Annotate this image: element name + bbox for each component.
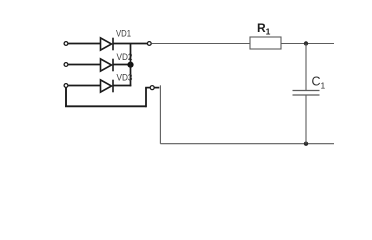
wire: VD2 cathode to bus: [113, 64, 131, 66]
wire: terminal 2 to VD2 anode: [68, 64, 100, 66]
input terminal 1: [64, 42, 68, 46]
wire: output terminal stub right: [154, 87, 159, 89]
wire: cathode bus vertical: [130, 44, 132, 87]
wire: resistor R1 to right end of top rail: [281, 43, 334, 45]
wire: VD3 cathode to bus: [113, 85, 131, 87]
svg-text:VD1: VD1: [116, 27, 131, 38]
wire: riser to output terminal: [145, 87, 150, 89]
capacitor C1: [293, 91, 320, 96]
wire: bottom-left horizontal run: [65, 105, 147, 107]
resistor R1: [250, 37, 281, 49]
wire: terminal 3 to VD3 anode: [68, 85, 100, 87]
wire: capacitor branch lower: [305, 95, 307, 144]
wire: terminal 1 to VD1 anode: [68, 43, 100, 45]
wire: terminal 3 down leg: [65, 88, 67, 107]
wire: bottom rail: [160, 143, 334, 145]
junction dot: top rail / capacitor branch: [304, 41, 308, 45]
input terminal 2: [64, 63, 68, 67]
diode VD1: [101, 38, 114, 51]
wire: capacitor branch upper: [305, 44, 307, 91]
wire: VD1 cathode to node circle on top rail: [113, 43, 147, 45]
output terminal: [150, 86, 154, 90]
wire: right drop to bottom rail: [159, 85, 161, 143]
junction dot: VD2 cathode / bus: [127, 62, 133, 68]
wire: node circle to resistor R1: [152, 43, 251, 45]
svg-text:VD3: VD3: [117, 71, 133, 82]
junction dot: bottom rail / capacitor branch: [304, 142, 308, 146]
wire: riser up to output node: [145, 88, 147, 108]
node terminal on top rail: [147, 42, 151, 46]
diode VD2: [101, 59, 114, 72]
diode VD3: [101, 80, 114, 93]
input terminal 3: [64, 84, 68, 88]
